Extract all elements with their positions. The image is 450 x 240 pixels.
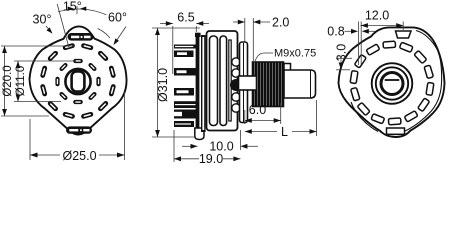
svg-text:Ø11.0: Ø11.0 (15, 66, 27, 96)
svg-text:12.0: 12.0 (365, 9, 389, 23)
svg-text:Ø31.0: Ø31.0 (156, 68, 170, 102)
svg-text:3.0: 3.0 (335, 44, 349, 61)
svg-text:2.0: 2.0 (272, 15, 289, 29)
svg-text:L: L (281, 125, 288, 139)
svg-text:6.5: 6.5 (177, 11, 194, 25)
svg-text:30°: 30° (33, 12, 52, 26)
svg-text:6.0: 6.0 (249, 103, 266, 117)
svg-text:60°: 60° (108, 11, 127, 25)
svg-text:0.8: 0.8 (327, 25, 344, 39)
svg-text:M9x0.75: M9x0.75 (274, 48, 316, 60)
svg-text:15°: 15° (63, 0, 82, 13)
svg-text:Ø25.0: Ø25.0 (62, 149, 96, 163)
svg-text:19.0: 19.0 (199, 152, 223, 164)
svg-text:Ø20.0: Ø20.0 (2, 65, 14, 96)
